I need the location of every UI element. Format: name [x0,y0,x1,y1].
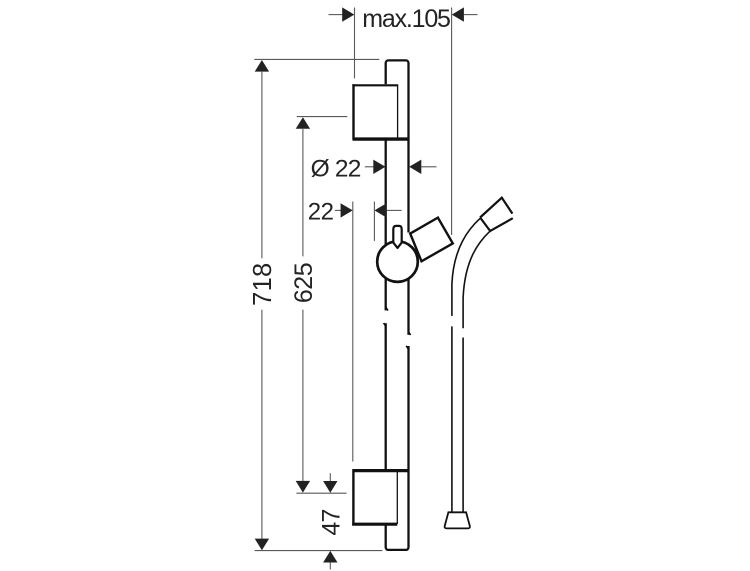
dimension 47 upper arrow [323,481,337,493]
dimension 22 right arrow [375,203,387,217]
shower hose conical nut (top) [480,198,513,231]
dimension 22 right tail [387,209,402,211]
dimension 22 left arrow [341,203,353,217]
dimension Ø22 left tail [365,166,375,168]
slider sleeve whiteout over rail edge [406,233,410,246]
dimension 625 line [302,128,304,256]
dimension max.105 left arrow [342,7,354,21]
shower hose conical end (bottom) [445,512,470,528]
shower hose inner curve [463,231,490,328]
dimension 625 bottom arrow [296,481,310,493]
handshower holder arm [410,218,453,262]
knob marker pin [393,226,401,248]
svg-text:Ø 22: Ø 22 [311,156,361,183]
dimension 718 top arrow [255,60,269,72]
shower hose outer curve [452,218,480,316]
dimension max.105 right tail [464,14,478,16]
dimension max.105 right arrow [452,7,464,21]
svg-text:718: 718 [249,262,277,305]
dimension max.105 left tail [329,14,343,16]
dimension 625/47 shared tick line [296,492,346,494]
dimension 47 lower arrow [323,551,337,563]
dimension Ø22 left arrow [373,160,385,174]
dimension 625 top arrow [296,117,310,129]
svg-text:625: 625 [290,263,318,303]
dimension Ø22 right arrow [409,160,421,174]
bottom bracket (wall support) [352,469,409,525]
dimension Ø22 right tail [421,166,436,168]
svg-text:max.105: max.105 [362,5,450,33]
dimension 22 right extension line [373,202,375,241]
dimension 625 top reference line [297,116,348,118]
dimension max.105 right extension line [451,8,453,236]
wall bar (vertical rail) [386,60,409,550]
rail break gap right edge [406,332,412,350]
slider knob (circle) [377,241,418,282]
dimension 47 upper arrow tail [329,473,331,481]
dimension 22 left tail [335,209,342,211]
dimension max.105 left extension line [354,8,356,79]
dimension 47 lower arrow tail [329,563,331,570]
dimension 718 line [261,71,263,258]
dimension 718 bottom arrow [255,539,269,551]
dimension 718 top reference line [254,58,379,60]
svg-text:22: 22 [308,198,334,225]
dimension 22 left extension line [352,202,354,462]
rail break gap left edge [383,307,389,326]
top bracket (wall support) [352,84,408,140]
dimension 47 bottom reference line [255,550,383,552]
svg-text:47: 47 [317,509,345,535]
